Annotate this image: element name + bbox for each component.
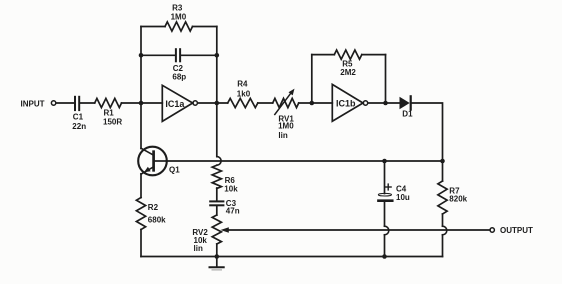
svg-text:R3: R3 bbox=[172, 3, 183, 12]
svg-text:D1: D1 bbox=[402, 110, 413, 119]
capacitor C3 bbox=[210, 188, 239, 215]
svg-text:R2: R2 bbox=[148, 203, 159, 212]
svg-text:R4: R4 bbox=[237, 80, 248, 89]
svg-text:150R: 150R bbox=[103, 117, 122, 126]
wire IC1a output to junction bbox=[198, 102, 228, 104]
resistor R5 feedback loop bbox=[312, 50, 386, 103]
node IC1a input junction bbox=[139, 101, 144, 106]
resistor R1 bbox=[95, 98, 123, 126]
svg-text:OUTPUT: OUTPUT bbox=[500, 226, 533, 235]
wire D1 to right corner and down bbox=[412, 103, 443, 161]
svg-text:2M2: 2M2 bbox=[340, 68, 356, 77]
svg-text:1M0: 1M0 bbox=[171, 12, 187, 21]
capacitor C1 bbox=[72, 97, 86, 131]
wire C1 to R1 bbox=[80, 102, 95, 104]
resistor R4 bbox=[228, 80, 258, 108]
svg-text:lin: lin bbox=[278, 131, 287, 140]
capacitor C2 bbox=[141, 49, 217, 81]
svg-text:10k: 10k bbox=[224, 185, 238, 194]
wire input terminal to C1 bbox=[56, 102, 74, 104]
wire right riser of feedback loop bbox=[216, 27, 218, 104]
svg-text:C1: C1 bbox=[73, 113, 84, 122]
svg-text:INPUT: INPUT bbox=[21, 100, 45, 109]
ground bbox=[210, 257, 224, 270]
wire R7 to rail with hop over output line bbox=[443, 214, 447, 257]
wire bottom rail bbox=[141, 256, 443, 258]
svg-text:10u: 10u bbox=[396, 193, 410, 202]
wire R4 to RV1 bbox=[258, 102, 273, 104]
wire output line from RV2 wiper to output terminal bbox=[226, 229, 490, 231]
potentiometer RV1 bbox=[273, 89, 299, 140]
wire IC1b output to D1 bbox=[368, 102, 399, 104]
node C4 control line junction bbox=[382, 159, 387, 164]
node right C2 junction bbox=[215, 53, 220, 58]
diode D1 bbox=[400, 96, 414, 118]
svg-text:R1: R1 bbox=[104, 108, 115, 117]
wire C4 to rail with hop over output line bbox=[385, 202, 389, 257]
wire RV2 to bottom rail bbox=[216, 244, 218, 257]
resistor R2 bbox=[136, 198, 166, 230]
resistor R6 bbox=[212, 165, 238, 193]
op-amp IC1a bbox=[162, 85, 197, 121]
wire RV1 to IC1b input bbox=[299, 102, 333, 104]
wire control line bbox=[167, 160, 443, 162]
svg-text:lin: lin bbox=[194, 244, 203, 253]
svg-text:1M0: 1M0 bbox=[278, 122, 294, 131]
node IC1a output junction bbox=[215, 101, 220, 106]
wire left riser of feedback loop bbox=[140, 27, 142, 104]
svg-text:IC1a: IC1a bbox=[165, 99, 185, 109]
wire Q1 emitter down to R2 bbox=[140, 174, 142, 198]
node IC1b output junction bbox=[383, 101, 388, 106]
output terminal bbox=[490, 228, 494, 232]
svg-text:Q1: Q1 bbox=[169, 165, 180, 174]
wire R1 to IC1a input bbox=[122, 102, 163, 104]
node control line right corner bbox=[440, 159, 445, 164]
svg-text:47n: 47n bbox=[226, 206, 240, 215]
svg-text:22n: 22n bbox=[72, 122, 86, 131]
resistor R7 bbox=[438, 161, 468, 214]
input terminal bbox=[51, 101, 55, 105]
transistor Q1 bbox=[138, 147, 180, 176]
svg-text:1k0: 1k0 bbox=[237, 89, 251, 98]
node bottom rail RV2 junction bbox=[215, 254, 220, 259]
potentiometer RV2 bbox=[192, 206, 228, 253]
capacitor C4 bbox=[378, 161, 410, 202]
op-amp IC1b bbox=[332, 84, 367, 121]
resistor R3 bbox=[141, 3, 217, 31]
svg-text:680k: 680k bbox=[148, 215, 166, 224]
svg-text:820k: 820k bbox=[449, 195, 467, 204]
wire R2 to bottom rail bbox=[140, 230, 142, 257]
node IC1b input junction bbox=[310, 101, 315, 106]
wire junction down to Q1 collector bbox=[140, 103, 142, 149]
node left C2 junction bbox=[139, 53, 144, 58]
svg-text:IC1b: IC1b bbox=[336, 99, 356, 109]
svg-text:68p: 68p bbox=[172, 73, 186, 82]
node bottom rail C4 junction bbox=[382, 254, 387, 259]
wire IC1a output junction down with hop over control line bbox=[217, 103, 221, 165]
